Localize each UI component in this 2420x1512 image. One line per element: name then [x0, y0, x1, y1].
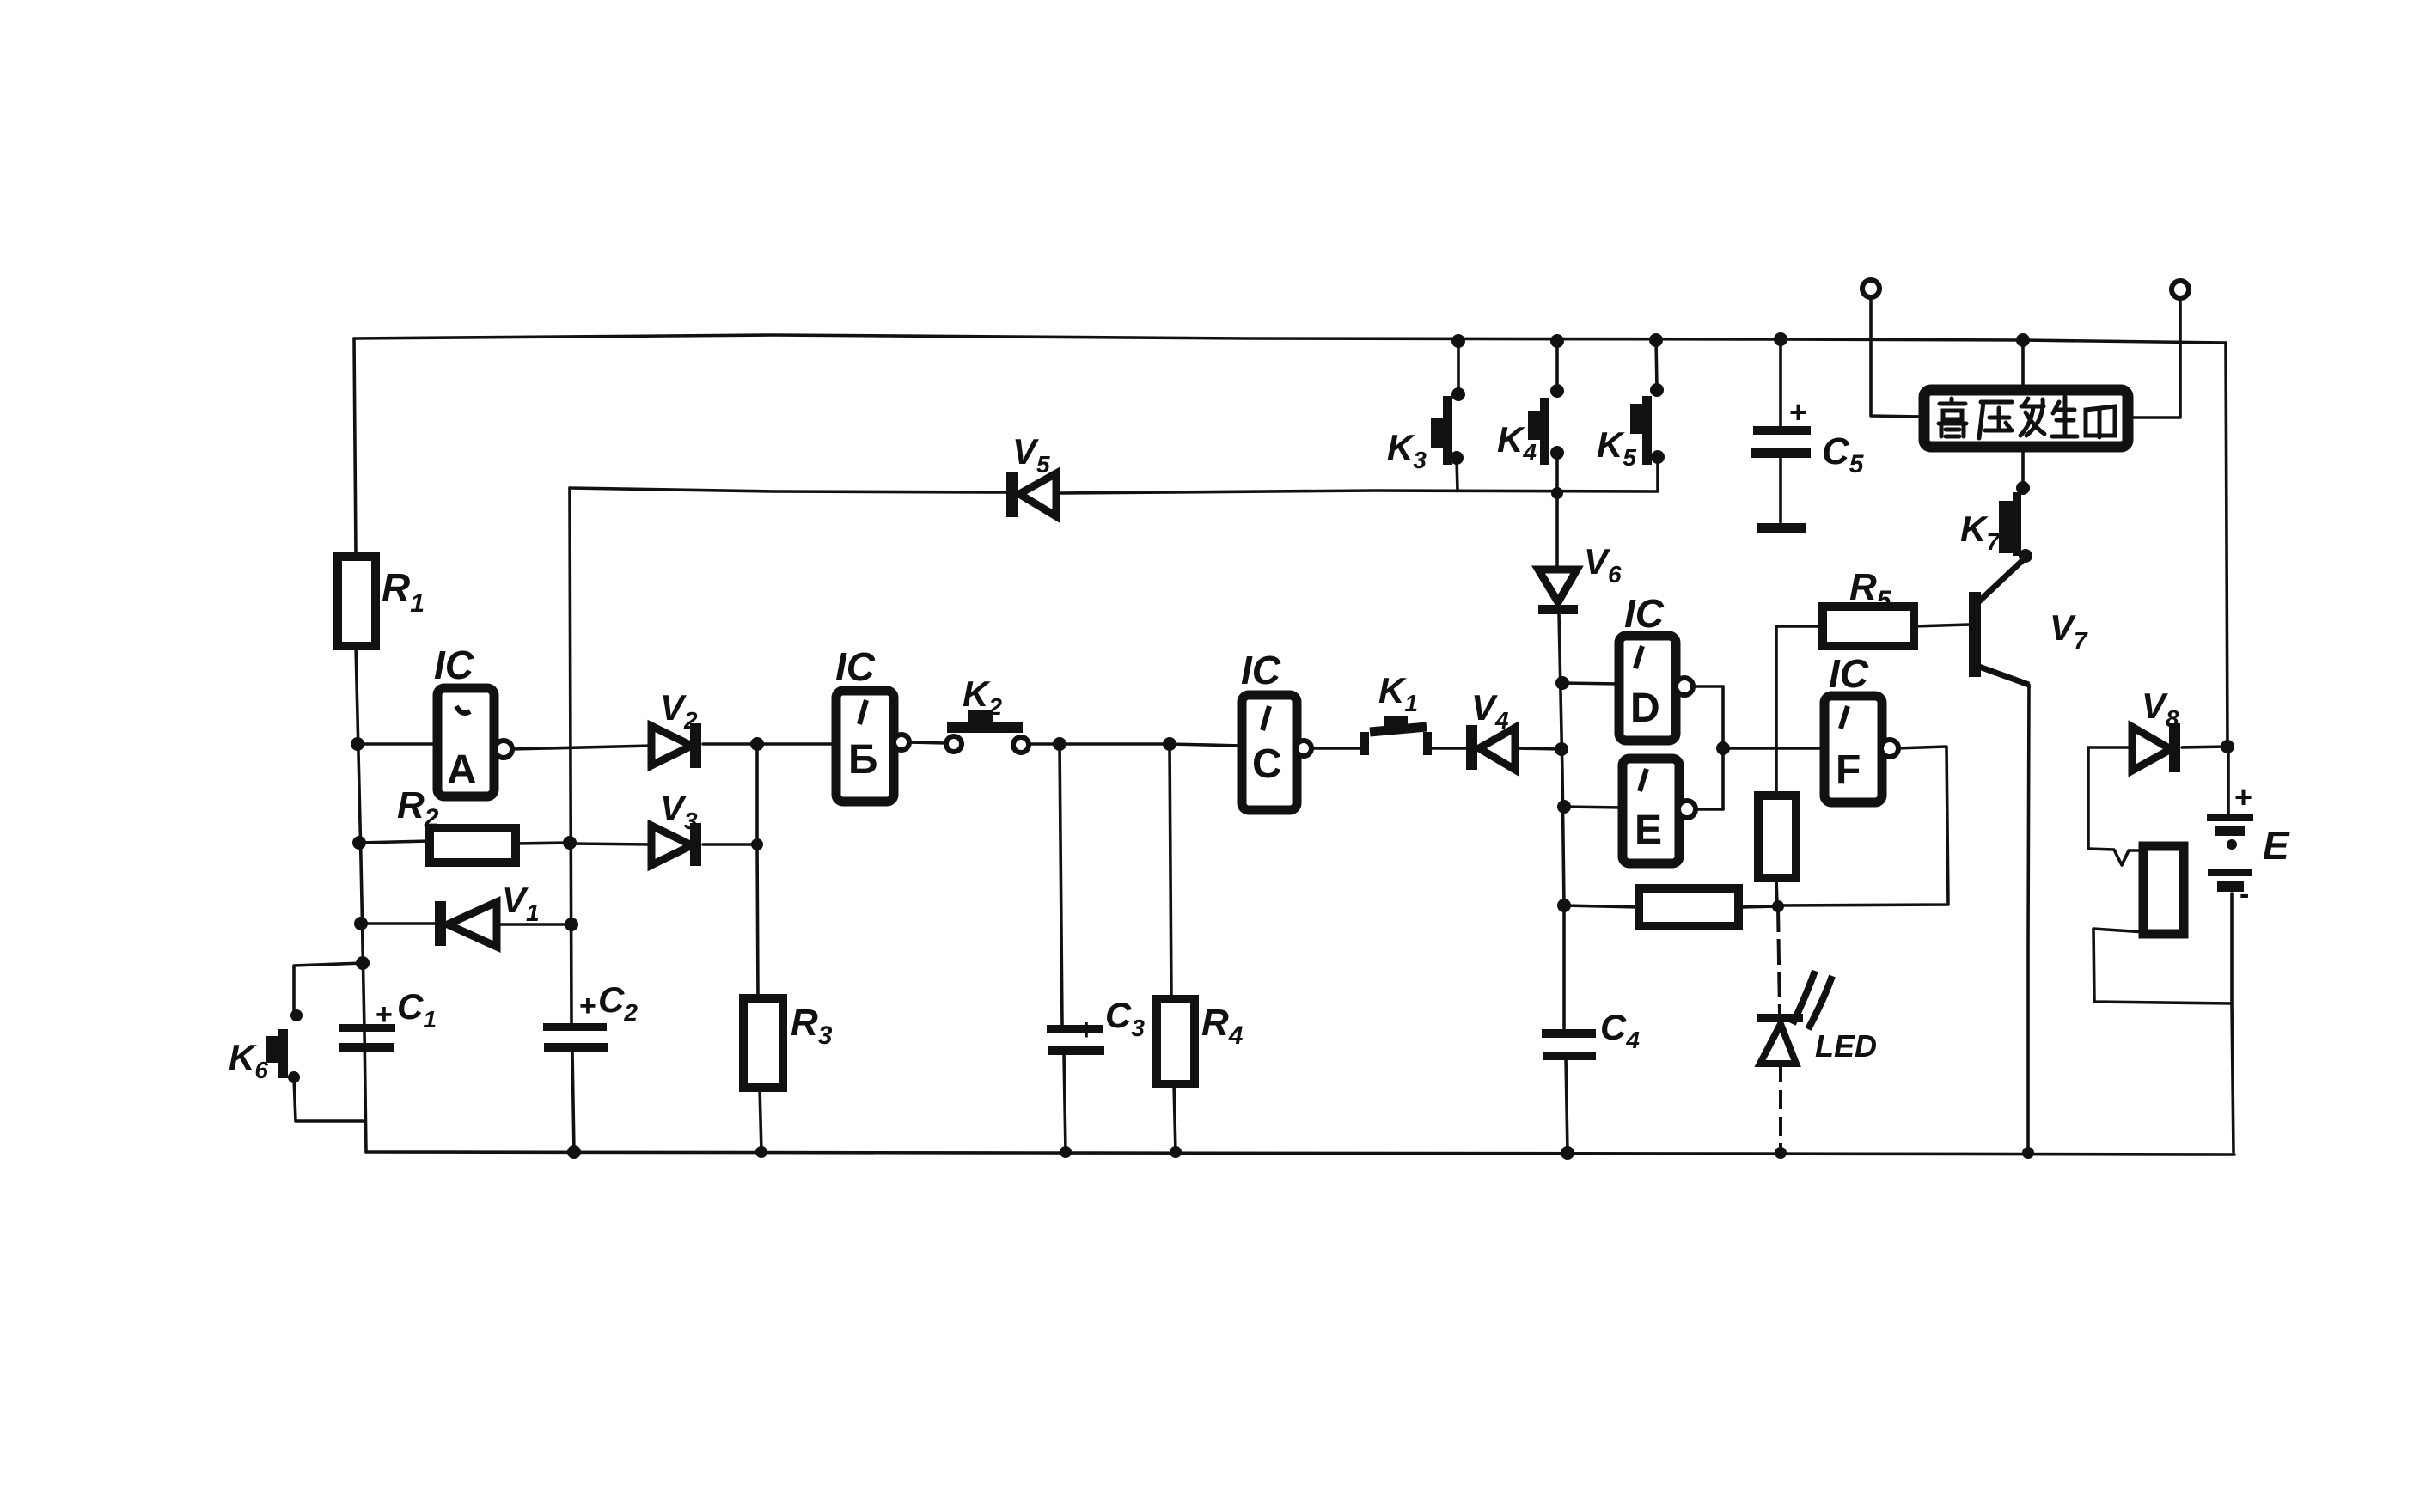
wire K5 branch	[1656, 340, 1657, 388]
wire V1 branch left rail to node x665	[361, 922, 437, 925]
IC gate C	[1241, 648, 1311, 810]
LED	[1757, 906, 1877, 1152]
resistor unlabeled horizontal (timing)	[1639, 888, 1739, 926]
speaker (sounder)	[2143, 846, 2184, 934]
junction node V1 right on x665	[565, 918, 578, 931]
resistor R1	[338, 557, 425, 646]
wire V4 to node x1817	[1517, 748, 1561, 749]
wire node x665 vertical (V5 bus corner down through C2 to ground)	[570, 488, 571, 1023]
IC gate B	[835, 644, 909, 802]
wire speaker top lead with dip	[2088, 849, 2143, 865]
junction node R4 ground	[1170, 1146, 1182, 1158]
junction node V4 cathode on x1817	[1555, 742, 1568, 756]
resistor R4	[1157, 999, 1244, 1084]
wire horizontal resistor branch to node x1817	[1564, 905, 1639, 907]
junction node LED top	[1772, 900, 1784, 912]
wire R2 branch left rail to node x665	[359, 841, 430, 843]
push button K5	[1597, 396, 1652, 471]
wire V7 emitter down to ground	[1979, 667, 2029, 1152]
junction node E input	[1557, 800, 1571, 814]
svg-text:E: E	[2263, 823, 2290, 868]
junction node C5 top rail	[1774, 332, 1787, 346]
push button K4	[1497, 398, 1549, 466]
diode V1	[435, 880, 540, 947]
junction node K6 lower terminal	[288, 1071, 300, 1083]
wire D/E outputs to IC F input	[1723, 747, 1824, 750]
IC gate A	[434, 643, 512, 796]
wire unlabeled resistor bottom to LED node	[1776, 878, 1777, 905]
wire V8 anode stub	[2088, 746, 2132, 749]
diode V5	[1006, 431, 1056, 517]
wire node x881 vertical through R3 to ground	[757, 744, 758, 998]
wire K2 to IC C input	[1029, 744, 1242, 746]
IC gate F	[1824, 651, 1898, 802]
junction node R3 ground	[755, 1146, 767, 1158]
junction node V2 cathode	[750, 737, 764, 751]
svg-text:+: +	[579, 990, 596, 1022]
resistor R2	[397, 784, 516, 863]
wire K4 bottom to V6 anode	[1555, 493, 1559, 569]
wire R5 left stub	[1776, 625, 1823, 628]
wire K3 branch	[1457, 341, 1460, 393]
push button K2	[946, 674, 1029, 753]
wire V8 anode down to speaker	[2087, 747, 2090, 849]
capacitor C3	[1047, 995, 1145, 1055]
svg-text:+: +	[1789, 394, 1807, 430]
wire IC C output to K1	[1311, 747, 1360, 750]
junction node K3 top rail	[1451, 334, 1465, 348]
junction node V7 emitter ground	[2022, 1147, 2034, 1159]
svg-text:Б: Б	[848, 737, 878, 783]
push button K3	[1387, 396, 1452, 473]
wire R5 left vertical down to unlabeled resistor	[1775, 626, 1778, 796]
push button K7	[1960, 492, 2021, 556]
capacitor C5	[1751, 394, 1865, 533]
wire C5 branch from top rail	[1779, 339, 1782, 426]
svg-text:IC: IC	[1829, 651, 1869, 696]
svg-text:IC: IC	[1241, 648, 1281, 692]
resistor R5	[1823, 566, 1914, 646]
wire node x1233 vertical through C3 to ground	[1060, 744, 1062, 1025]
svg-text:IC: IC	[1624, 591, 1665, 636]
svg-text:+: +	[376, 998, 393, 1031]
junction node K4 top rail	[1550, 334, 1564, 348]
junction node K5 lower terminal	[1651, 450, 1665, 464]
junction node C4 ground	[1561, 1146, 1574, 1160]
svg-text:F: F	[1836, 747, 1861, 793]
wire R5 to V7 base	[1914, 625, 1969, 626]
wire E output to tie	[1696, 808, 1723, 811]
svg-text:E: E	[1635, 808, 1662, 853]
diode V2	[651, 687, 701, 768]
terminal HV output left	[1862, 280, 1879, 297]
junction node K6 upper terminal	[290, 1009, 302, 1021]
terminal HV output right	[2172, 281, 2189, 298]
transistor V7	[1969, 558, 2088, 685]
resistor R3	[743, 998, 833, 1088]
wire V7 collector to K7	[1979, 558, 2026, 601]
junction node R2/V3 on x665	[563, 836, 577, 850]
junction node C2 ground	[567, 1145, 581, 1159]
wire IC B output to K2	[907, 742, 946, 743]
battery E	[2207, 779, 2290, 911]
junction node V3 cathode	[751, 838, 763, 850]
junction node V1 on left rail	[354, 917, 368, 930]
push button K1	[1360, 670, 1432, 755]
wire top supply rail	[354, 335, 2226, 343]
svg-text:+: +	[1078, 1014, 1095, 1046]
junction node R4 top	[1163, 737, 1176, 751]
svg-text:C: C	[1252, 741, 1282, 787]
capacitor C4	[1542, 1007, 1640, 1060]
wire battery minus lead down to ground	[2232, 893, 2234, 1152]
junction node K4 on V5 bus	[1551, 487, 1563, 499]
capacitor C1	[339, 986, 437, 1052]
wire battery plus node to V8 cathode	[2182, 747, 2227, 747]
wire IC D input	[1562, 683, 1619, 684]
wire V3 branch	[571, 844, 651, 844]
wire battery plus lead	[2227, 747, 2230, 815]
svg-text:IC: IC	[434, 643, 474, 687]
wire K4 branch	[1555, 341, 1559, 388]
wire HV box bottom to K7	[2021, 448, 2025, 486]
junction node K4 upper terminal	[1550, 384, 1564, 398]
wire IC A output to V2	[511, 746, 651, 749]
wire IC A input from left rail	[357, 742, 437, 746]
wire node x1817 vertical (V6 cathode down through C4 to ground)	[1559, 613, 1564, 1028]
svg-text:D: D	[1630, 686, 1660, 731]
wire V2 to IC B input	[703, 742, 836, 746]
junction node K7 lower terminal / V7 collector	[2019, 549, 2032, 563]
wire bottom ground rail	[366, 1152, 2234, 1155]
junction node C3 ground	[1060, 1146, 1072, 1158]
push button K6	[229, 1029, 288, 1083]
junction node LED ground	[1775, 1147, 1787, 1159]
svg-text:+: +	[2234, 779, 2252, 814]
svg-text:-: -	[2240, 878, 2249, 911]
junction node K5 upper terminal	[1650, 383, 1664, 397]
junction node D/E output tie	[1716, 741, 1730, 755]
wire V5 feedback bus	[570, 488, 1008, 492]
junction node HV box top rail	[2016, 333, 2030, 347]
capacitor C2	[543, 979, 638, 1052]
wire HV left terminal lead	[1871, 297, 1922, 417]
wire IC E input	[1564, 807, 1622, 808]
high-voltage generator box	[1924, 390, 2128, 447]
wire top rail to HV box top	[2021, 340, 2025, 389]
wire HV right terminal lead	[2129, 298, 2180, 418]
diode V8	[2132, 686, 2180, 772]
wire K1 to V4	[1433, 747, 1468, 750]
junction node A-input on left rail	[351, 737, 364, 751]
wire D output to tie	[1693, 685, 1723, 688]
junction node K6 branch	[356, 956, 370, 970]
wire K6 branch upper	[294, 963, 363, 1011]
svg-text:A: A	[447, 747, 477, 793]
svg-text:LED: LED	[1815, 1028, 1877, 1064]
wire left vertical rail upper (to R1)	[354, 338, 356, 557]
wire IC F output loop right and down	[1778, 747, 1948, 905]
diode V3	[651, 788, 701, 866]
wire left vertical rail lower (R1 to bottom)	[356, 646, 366, 1152]
diode V6	[1538, 541, 1622, 614]
resistor unlabeled vertical (D/E output)	[1758, 796, 1796, 878]
junction node R2 on left rail	[352, 836, 366, 850]
wire C5 lower stub	[1779, 459, 1782, 522]
junction node K3 lower terminal	[1450, 451, 1464, 465]
junction node K4 lower terminal	[1550, 446, 1564, 460]
junction node V8 cathode battery plus	[2221, 740, 2234, 753]
svg-text:IC: IC	[835, 644, 876, 689]
junction node K2 output	[1053, 737, 1066, 751]
IC gate E	[1622, 759, 1696, 863]
diode V4	[1466, 687, 1515, 770]
junction node K5 top rail	[1649, 333, 1663, 347]
junction node resistor branch on x1817	[1557, 899, 1571, 912]
wire node x1365 vertical through R4 to ground	[1170, 744, 1171, 999]
IC gate D	[1619, 591, 1693, 741]
wire K6 branch lower return	[294, 1077, 365, 1121]
wire right vertical rail (top corner to battery node)	[2226, 343, 2227, 747]
wire D/E output tie vertical	[1721, 686, 1725, 809]
junction node K7 upper terminal	[2016, 481, 2030, 495]
junction node D input	[1555, 676, 1569, 690]
wire speaker bottom loop to battery minus	[2093, 929, 2232, 1003]
junction node K3 upper terminal	[1451, 387, 1465, 401]
